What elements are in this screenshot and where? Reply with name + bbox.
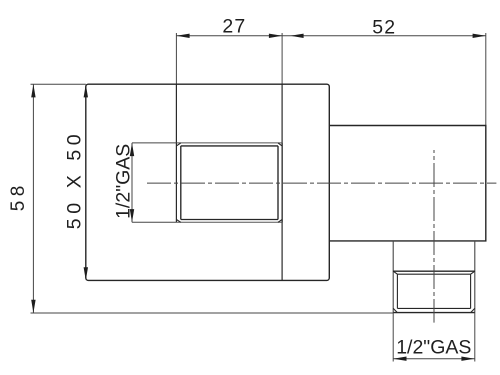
svg-text:50 X 50: 50 X 50 [64,130,86,229]
wire: extension line x=485.8 (52 right, down to body) [485,33,487,126]
arrow: bottom dim right [461,357,474,361]
arrow: 27 right [269,34,282,38]
arrow: port dim bottom [130,209,134,222]
arrow: bottom dim left [393,357,406,361]
flange outline (rounded square plate) [86,84,329,280]
svg-text:52: 52 [372,16,396,38]
bottom dimension line [393,358,474,360]
port chamfer diagonals [176,143,282,222]
bottom dimension extension lines [392,313,394,362]
wire: top dimension line (27 and 52 shared) [176,35,485,37]
arrow: port dim top [130,143,134,156]
wire: extension line y=313 (58 bottom, to nipple) [31,312,394,314]
nipple bottom edge [393,312,475,314]
wire: extension line y=84.2 (58 top / flange top, left of flange) [31,83,86,85]
nipple thread start line [393,270,475,272]
arrow: 58 top [31,84,35,97]
neck and threaded nipple outer verticals [393,241,475,313]
arrow: 52 right [473,34,486,38]
wire: extension line x=176.4 (27 left, into flange to port) [175,33,177,84]
arrow: 52 left [290,34,303,38]
arrow: 50 top [84,84,88,97]
arrow: 50 bottom [84,267,88,280]
port dimension 1/2"GAS: extension lines [132,142,176,144]
dimension 58 line [32,84,34,313]
centerline horizontal (dash-dot) [147,182,496,184]
nipple chamfer diagonals [393,271,475,312]
threaded port outer rectangle [176,143,282,222]
body outline (horizontal cylinder body) [329,126,486,241]
nipple inner thread lines [397,274,470,308]
arrow: 58 bottom [31,300,35,313]
svg-text:1/2"GAS: 1/2"GAS [112,144,134,219]
port dimension line [131,143,133,222]
arrow: 27 left [176,34,189,38]
svg-text:58: 58 [8,181,29,211]
svg-text:1/2"GAS: 1/2"GAS [396,337,471,359]
centerline vertical through nipple (dash-dot) [433,150,435,323]
threaded port inner (thread) lines [181,146,278,220]
wire: extension line x=282.1 (27 right, through flange) [281,33,283,84]
svg-text:27: 27 [222,16,246,38]
